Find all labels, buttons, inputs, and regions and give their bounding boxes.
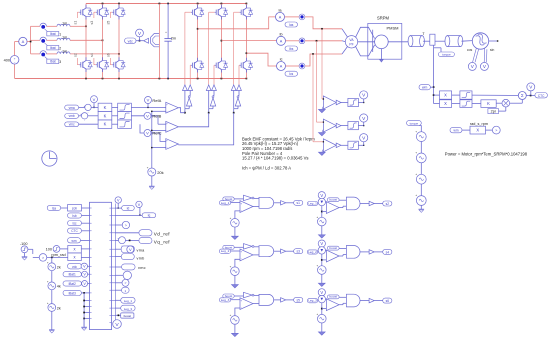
node bottom bus junctions <box>85 78 87 80</box>
capacitor C1 2m <box>167 4 169 39</box>
wire Ib out <box>286 40 300 42</box>
label boost row s6 <box>327 295 339 299</box>
svg-text:Ias: Ias <box>289 23 294 27</box>
voltage sensor bottom <box>113 320 122 329</box>
svg-text:−: − <box>14 60 16 64</box>
ground arrow U3 <box>322 149 324 152</box>
svg-text:Vd_ref: Vd_ref <box>154 231 171 236</box>
limiter v3 <box>112 123 118 125</box>
voltage sensor RefA <box>145 97 152 104</box>
label boost row s5 <box>223 294 234 298</box>
wire row2 to comparator <box>131 115 158 117</box>
svg-text:V: V <box>320 290 323 295</box>
summer s6 <box>317 300 319 302</box>
svg-text:A: A <box>280 40 283 44</box>
gate stub s4 <box>94 64 96 66</box>
label Vd_ref <box>112 232 116 234</box>
svg-text:Ic: Ic <box>280 58 283 62</box>
ground torque chain <box>420 205 422 209</box>
ammeter A1 <box>19 37 27 45</box>
ground carrier s1 <box>234 227 236 236</box>
svg-text:V: V <box>146 131 149 136</box>
limiter 1 <box>452 94 460 96</box>
resolver position sensor <box>472 33 488 49</box>
NOT gate s5 <box>234 295 243 297</box>
wire src2-src3 <box>420 163 422 175</box>
label Ibat2 <box>47 46 59 50</box>
label Leg_3 b <box>307 299 317 303</box>
current sensor Ibat2 <box>40 37 46 40</box>
wire limiter out 2 <box>358 125 363 127</box>
wire phase sense 3 <box>312 54 314 142</box>
svg-text:vma: vma <box>69 106 75 110</box>
shaft wire 3 <box>435 40 447 42</box>
gate stub s6 <box>110 64 112 66</box>
inductor L3 1m <box>57 52 70 54</box>
gain block Kv3 <box>98 120 112 128</box>
svg-text:V: V <box>320 241 323 246</box>
label Isc <box>68 221 82 226</box>
op-amp comparator U1 <box>323 96 336 109</box>
on-off controller pair leg2 <box>206 85 211 91</box>
wire to limiter 1 <box>341 102 348 104</box>
comparator s1 <box>231 202 240 204</box>
voltage sensor vdc in <box>81 263 87 269</box>
svg-text:Leg_1: Leg_1 <box>124 299 133 303</box>
mechanical coupling 1 <box>411 36 423 47</box>
probe gt1 <box>112 224 116 226</box>
svg-text:Leg_1: Leg_1 <box>221 201 230 205</box>
ground carrier s3 <box>234 276 236 285</box>
summer Vq <box>112 239 116 241</box>
wire 2pi to multiplier <box>499 110 506 112</box>
svg-text:Leg_3: Leg_3 <box>124 307 133 311</box>
comparator CB <box>166 121 179 132</box>
svg-text:Ibat: Ibat <box>50 46 56 50</box>
svg-text:X: X <box>476 128 479 133</box>
IGBT upper inverter leg1 <box>197 5 199 8</box>
svg-text:CTC: CTC <box>538 94 545 98</box>
IGBT lower inverter leg1 <box>197 58 199 61</box>
wire limiter1 to sum <box>472 94 518 96</box>
svg-text:Isa: Isa <box>52 206 56 210</box>
current flag Ibs <box>299 38 305 44</box>
current flag Ias <box>299 14 305 20</box>
probe gt2 <box>112 282 116 284</box>
wire row3 to comparator <box>140 124 144 133</box>
svg-text:PMSM: PMSM <box>387 25 399 30</box>
pin bus right <box>114 204 116 325</box>
svg-text:vmc: vmc <box>69 123 75 127</box>
inductor L2 1m <box>57 38 70 40</box>
svg-text:vmb: vmb <box>137 257 145 261</box>
label vmb <box>65 114 79 119</box>
wire Ic out <box>286 65 300 67</box>
current sensor Ibat3 <box>40 51 46 54</box>
label wm in <box>68 238 81 243</box>
label Isa <box>47 205 61 210</box>
label Ics <box>285 71 298 76</box>
svg-text:-: - <box>241 208 242 212</box>
zoh block <box>68 205 82 211</box>
limiter 2 <box>452 103 460 105</box>
label Leg_1 b <box>307 202 317 206</box>
label s5 <box>294 297 303 302</box>
carrier source s5 <box>235 308 240 316</box>
svg-text:s4: s4 <box>90 53 94 57</box>
svg-text:2pi: 2pi <box>491 110 496 114</box>
svg-text:A: A <box>280 65 283 69</box>
voltage sensor Ref1 <box>360 91 368 99</box>
svg-text:Ibs: Ibs <box>289 47 294 51</box>
label boost row s4 <box>327 246 339 250</box>
wire bottom DC bus <box>14 64 16 78</box>
svg-text:x: x <box>74 247 76 252</box>
svg-text:rad_s_rpm: rad_s_rpm <box>470 122 488 126</box>
svg-text:K: K <box>104 105 107 110</box>
wire inverter leg 2 <box>220 4 222 9</box>
svg-text:Leg_3: Leg_3 <box>221 298 230 302</box>
node phase tap leg1 <box>85 25 87 27</box>
svg-text:1m: 1m <box>62 22 67 26</box>
svg-text:1m: 1m <box>62 49 67 53</box>
svg-text:-: - <box>241 305 242 309</box>
wire gate lower leg3 <box>238 64 241 66</box>
wire sin pins <box>483 48 486 62</box>
wire battery branch 3 <box>31 53 40 55</box>
svg-text:rpm_rad: rpm_rad <box>51 253 65 257</box>
label Ibat1 <box>47 32 59 36</box>
carrier source 2k a <box>51 257 53 263</box>
ammeter Ib <box>277 36 286 45</box>
svg-text:>: > <box>42 256 44 260</box>
svg-text:2k: 2k <box>57 306 61 310</box>
svg-text:torque: torque <box>410 121 419 125</box>
svg-text:Ich = ψPM / Ld = 302.78 A: Ich = ψPM / Ld = 302.78 A <box>242 166 291 171</box>
voltage source V400 <box>10 56 19 65</box>
svg-text:Leg_3: Leg_3 <box>308 299 317 303</box>
voltage sensor Ref2 <box>360 114 368 122</box>
svg-text:-: - <box>241 257 242 261</box>
inverting gate driver leg3 <box>235 98 240 106</box>
buffer U2 <box>336 123 341 128</box>
svg-text:K: K <box>104 122 107 127</box>
speed-torque sensor block <box>430 34 435 45</box>
svg-text:boost: boost <box>329 295 337 299</box>
comparator s4 <box>325 249 328 251</box>
limiter block 2 <box>348 122 359 130</box>
wire battery branch 1 <box>31 25 40 27</box>
wire phase sense 2 <box>316 41 318 122</box>
svg-text:-: - <box>166 146 167 150</box>
wire inverter leg 1 <box>197 4 199 9</box>
wire multiplier to sum <box>510 102 523 104</box>
wire inverter leg 3 <box>245 4 247 9</box>
wire phase C to machine <box>305 54 342 66</box>
wire sum out to label <box>526 95 535 97</box>
wire phase A <box>198 17 276 29</box>
gain block Kin1 <box>60 248 68 250</box>
ground carrier s2 <box>321 226 323 235</box>
svg-text:-: - <box>166 128 167 132</box>
wire 4k-2k <box>51 290 53 304</box>
ground block pins <box>83 319 85 328</box>
wire gate upper leg1 <box>185 11 191 13</box>
svg-text:boost: boost <box>124 314 132 318</box>
label Ias <box>285 22 298 27</box>
current sensor Ibat1 <box>40 23 46 26</box>
label boost row s2 <box>327 198 339 202</box>
NOT gate s1 <box>234 198 243 200</box>
svg-text:Id: Id <box>127 207 130 211</box>
svg-text:V: V <box>93 97 96 102</box>
svg-text:X: X <box>444 93 447 98</box>
carrier source s4 <box>321 254 323 266</box>
ammeter Ia <box>276 12 285 21</box>
svg-text:Vq_ref: Vq_ref <box>154 240 171 245</box>
svg-text:SRPM: SRPM <box>377 16 390 21</box>
svg-text:K: K <box>487 101 490 106</box>
svg-text:1m: 1m <box>62 36 67 40</box>
label s3 <box>294 249 303 254</box>
svg-text:s1: s1 <box>297 201 301 205</box>
node phase output 2 <box>221 40 223 42</box>
dc bus voltage probe <box>144 38 149 43</box>
ground carrier s4 <box>321 274 323 283</box>
label Ibs <box>285 46 298 51</box>
IGBT upper inverter leg2 <box>220 5 222 8</box>
wire source to ammeter <box>14 42 16 56</box>
svg-text:V: V <box>129 247 132 252</box>
svg-text:400: 400 <box>4 59 10 63</box>
svg-text:A: A <box>22 39 25 44</box>
gate stub s3 <box>94 11 96 13</box>
svg-text:Ia: Ia <box>279 9 282 13</box>
inverting gate driver leg1 <box>187 98 192 106</box>
label vdc <box>125 38 137 43</box>
gate stub s2 <box>77 64 79 66</box>
svg-text:K: K <box>104 113 107 118</box>
svg-text:2: 2 <box>59 46 61 50</box>
shaft wire <box>388 41 409 43</box>
voltage sensor ibat1 <box>82 271 88 277</box>
label wm <box>419 85 430 90</box>
wire vdc label to probe <box>136 40 144 42</box>
svg-text:Power = Motor_rpm*Tem_SRPM*0.1: Power = Motor_rpm*Tem_SRPM*0.1047198 <box>445 152 528 157</box>
gate stub s1 <box>77 11 79 13</box>
svg-text:RefA: RefA <box>152 98 161 103</box>
label torque shaft <box>438 52 454 57</box>
limiter block 3 <box>348 141 359 149</box>
carrier source s6 <box>321 303 323 315</box>
label vma <box>65 105 79 110</box>
IGBT s4 lower left-bridge <box>102 57 104 60</box>
svg-text:cos: cos <box>467 48 473 52</box>
label Leg_1 a <box>219 201 230 205</box>
summer s2 <box>317 202 319 204</box>
svg-text:RefB: RefB <box>152 113 161 118</box>
wire top DC bus <box>86 3 246 5</box>
torque harmonic source 2 <box>416 153 426 163</box>
svg-text:boost: boost <box>329 246 337 250</box>
svg-text:Leg_2: Leg_2 <box>221 249 230 253</box>
svg-text:s3: s3 <box>90 21 94 25</box>
limiter block 1 <box>348 98 359 106</box>
buffer s1 <box>274 202 281 204</box>
wire phase sense 1 <box>321 29 323 99</box>
label vdc in <box>68 263 82 269</box>
on-off controller pair leg1 <box>183 85 188 91</box>
svg-text:V: V <box>320 193 323 198</box>
svg-text:vmc: vmc <box>138 266 146 270</box>
svg-text:20k: 20k <box>157 170 163 175</box>
label Leg_2 b <box>307 250 317 254</box>
svg-text:2k: 2k <box>57 266 61 270</box>
block pin ticks <box>90 207 92 209</box>
svg-text:RefC: RefC <box>152 131 161 136</box>
label iBat3 in <box>63 290 81 295</box>
label torque chain <box>407 121 422 126</box>
label s2 <box>383 201 392 206</box>
ground carrier s5 <box>234 324 236 333</box>
svg-text:V: V <box>147 98 150 103</box>
wire CC out <box>178 113 233 145</box>
svg-text:s5: s5 <box>107 21 111 25</box>
svg-text:s2: s2 <box>386 202 390 206</box>
multiplier circle <box>502 99 510 107</box>
svg-text:zoh: zoh <box>72 207 77 211</box>
label Leg_3 out <box>112 307 116 309</box>
svg-text:s5: s5 <box>297 298 301 302</box>
svg-text:Ib: Ib <box>280 33 283 37</box>
svg-text:Σ: Σ <box>521 93 524 98</box>
carrier source 4k <box>48 282 56 290</box>
wire gate lower leg1 <box>189 64 192 66</box>
NOT gate s3 <box>234 246 243 248</box>
wire phase A to machine <box>305 17 342 29</box>
svg-text:vdc: vdc <box>128 39 133 43</box>
svg-text:torque: torque <box>442 53 451 57</box>
svg-text:s2: s2 <box>74 53 78 57</box>
voltage sensor Vcos <box>468 62 476 70</box>
torque harmonic source 3 <box>416 174 426 184</box>
carrier source s2 <box>321 206 323 218</box>
wire gate upper leg3 <box>234 11 240 13</box>
wire src1-src2 <box>420 142 422 154</box>
voltage sensor Vcm <box>91 96 98 103</box>
label vma out <box>112 248 116 250</box>
torque harmonic source 4 <box>416 196 426 206</box>
comparator CC <box>166 139 179 150</box>
op-amp comparator U2 <box>323 119 336 132</box>
wire resolver out <box>489 40 498 42</box>
gain block rad_s_rpm <box>462 129 470 131</box>
label vmc <box>65 122 79 127</box>
op-amp comparator U3 <box>323 139 336 152</box>
AND gate s1 <box>254 197 259 199</box>
voltage sensor s6 <box>318 289 325 296</box>
svg-text:Isb: Isb <box>72 214 76 218</box>
label vmb out <box>112 256 116 258</box>
IGBT s5 upper left-bridge <box>118 5 120 8</box>
svg-text:1: 1 <box>59 32 61 36</box>
svg-text:>: > <box>125 224 127 228</box>
wire to limiter 2 <box>341 125 348 127</box>
svg-text:iBat2: iBat2 <box>69 282 76 286</box>
carrier source s1 <box>235 211 240 219</box>
label boost row s3 <box>223 245 234 249</box>
wire CA out <box>178 108 185 113</box>
svg-text:V: V <box>146 113 149 118</box>
torque harmonic source 1 <box>416 132 426 142</box>
svg-text:s3: s3 <box>297 250 301 254</box>
ground -100 <box>24 253 26 257</box>
svg-text:>: > <box>125 281 127 285</box>
controller block C1 <box>90 202 112 329</box>
IGBT s1 upper left-bridge <box>85 5 87 8</box>
AND gate s3 <box>254 246 259 248</box>
on-off controller pair leg3 <box>231 85 236 91</box>
svg-text:V: V <box>138 31 141 36</box>
voltage sensor V theta <box>527 83 535 91</box>
wire 2k-4k <box>51 271 53 282</box>
node phase tap leg3 <box>118 53 120 55</box>
node phase tap leg2 <box>102 39 104 41</box>
ground carrier chain <box>49 329 55 331</box>
ammeter Ic <box>277 62 286 71</box>
label iBat1 in <box>63 272 81 277</box>
gain block K wm1 <box>434 94 440 96</box>
AND gate s2 <box>339 199 346 201</box>
AND gate s4 <box>339 248 346 250</box>
wire CB out <box>178 113 208 127</box>
svg-text:>: > <box>495 129 497 133</box>
buffer s4 <box>360 251 369 253</box>
voltage sensor V vdc <box>136 29 144 37</box>
svg-text:s4: s4 <box>386 250 390 254</box>
mechanical coupling 2 <box>447 36 460 47</box>
wire to limiter 3 <box>341 144 348 146</box>
svg-text:Isc: Isc <box>72 222 76 226</box>
wire src3-src4 <box>420 184 422 196</box>
wire Ia out <box>285 16 300 18</box>
ground carrier s6 <box>321 323 323 332</box>
voltage sensor s4 <box>318 240 325 247</box>
carrier source 20k <box>148 168 156 176</box>
gain block Kv2 <box>98 112 112 120</box>
label CTC in <box>68 228 82 233</box>
voltage sensor RefC <box>144 130 151 137</box>
wire to probe <box>486 129 493 131</box>
IGBT s3 upper left-bridge <box>102 5 104 8</box>
wire battery branch 2 <box>31 39 40 41</box>
limiter v2 <box>112 115 118 117</box>
ground 20k <box>151 176 153 186</box>
node branch split <box>30 41 32 43</box>
IGBT lower inverter leg2 <box>220 58 222 61</box>
svg-text:vmb: vmb <box>69 114 75 118</box>
label Id <box>112 207 116 209</box>
label wm 2 <box>450 127 462 132</box>
carrier source 2k b <box>48 304 56 312</box>
voltage sensor Vsin <box>480 62 488 70</box>
inductor L1 1m <box>57 24 70 26</box>
AND gate s6 <box>339 296 346 298</box>
svg-text:Leg_1: Leg_1 <box>308 202 317 206</box>
svg-text:4k: 4k <box>57 285 61 289</box>
wire limiter2 to K 2pi <box>472 103 481 105</box>
svg-text:3: 3 <box>59 60 61 64</box>
